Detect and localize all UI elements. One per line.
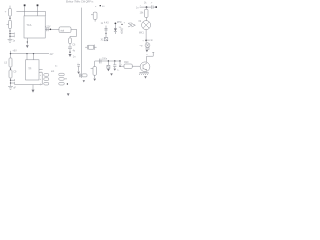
capacitor C10 + box xyxy=(79,74,81,78)
wire xyxy=(9,16,11,20)
crystal X2 xyxy=(107,61,109,65)
node xyxy=(114,60,115,61)
wire (top bus) xyxy=(16,11,45,13)
inductor L1 (box) xyxy=(59,27,71,33)
wire (bottom return) xyxy=(14,73,42,85)
svg-text:uF: uF xyxy=(13,88,16,90)
svg-text:1n: 1n xyxy=(150,40,153,42)
ground arrow xyxy=(110,73,113,75)
node xyxy=(145,40,147,42)
wire xyxy=(10,67,12,70)
capacitor C5 xyxy=(69,38,72,43)
svg-text:+9V: +9V xyxy=(12,50,17,53)
svg-text:(+: (+ xyxy=(117,69,120,71)
svg-text:+: + xyxy=(40,74,42,77)
op-amp U1 (IC box) xyxy=(24,16,45,38)
capacitor C11 xyxy=(151,5,153,8)
node xyxy=(119,60,120,61)
wire (IC pin down) xyxy=(26,38,28,45)
wire (base) xyxy=(132,65,140,67)
resistor R2 xyxy=(9,70,12,78)
lamp LA1 xyxy=(145,43,150,48)
svg-text:100n: 100n xyxy=(102,59,108,61)
pin taps right xyxy=(39,69,43,71)
ground arrow xyxy=(67,93,70,96)
capacitor C1 (polarized, top-left) xyxy=(9,6,11,9)
wire xyxy=(69,49,71,54)
svg-text:~w: ~w xyxy=(139,45,142,47)
terminal pin 2 xyxy=(37,6,39,16)
diode D1 xyxy=(114,24,116,28)
terminal pin 1 xyxy=(24,6,26,16)
crystal X1 symbol xyxy=(85,46,87,48)
node xyxy=(9,18,10,19)
ground arrow small xyxy=(83,80,85,82)
wire xyxy=(145,30,147,43)
resistor R4 xyxy=(93,12,97,19)
wire (bus to driver) xyxy=(120,61,124,66)
resistor R8 xyxy=(93,67,96,76)
resistor R1 xyxy=(9,20,12,28)
svg-text:LS: LS xyxy=(4,62,7,65)
transformer T1 (box) xyxy=(26,60,39,80)
svg-text:Elektor 7MHz CW QRP tx: Elektor 7MHz CW QRP tx xyxy=(66,1,94,4)
node xyxy=(9,30,10,31)
svg-text:10k: 10k xyxy=(140,12,145,14)
wire xyxy=(45,12,47,16)
hatch xyxy=(145,47,150,49)
svg-text:C6: C6 xyxy=(72,45,76,47)
svg-text:C9: C9 xyxy=(13,72,17,74)
svg-text:TR: TR xyxy=(28,68,31,71)
ground arrow xyxy=(77,72,80,74)
resistor R10 xyxy=(124,64,132,68)
ground xyxy=(8,85,13,87)
ground xyxy=(93,79,96,81)
capacitor chain mid xyxy=(105,26,107,34)
svg-text:n: n xyxy=(146,54,148,56)
resistor R12 xyxy=(145,9,148,17)
wire xyxy=(9,28,11,39)
svg-text:+: + xyxy=(124,22,126,24)
capacitor tap xyxy=(11,82,15,84)
wire xyxy=(10,78,12,86)
svg-text:R10: R10 xyxy=(124,62,129,64)
svg-text:ant: ant xyxy=(51,70,55,73)
capacitor C4 (series) xyxy=(46,27,48,31)
svg-text:4n7: 4n7 xyxy=(50,54,55,56)
ground xyxy=(8,38,13,40)
svg-text:n: n xyxy=(95,6,97,8)
ground xyxy=(32,90,35,93)
svg-text:TCA: TCA xyxy=(26,24,31,27)
svg-text:+: + xyxy=(40,78,42,81)
ground xyxy=(26,45,29,48)
node xyxy=(50,29,52,31)
wire (long vertical rail) xyxy=(80,8,82,78)
svg-text:1n: 1n xyxy=(136,7,139,9)
svg-text:MHz: MHz xyxy=(117,22,123,24)
svg-text:+: + xyxy=(142,40,144,42)
svg-text:4x: 4x xyxy=(55,65,58,67)
ground arrow xyxy=(144,76,147,78)
capacitor C6 xyxy=(68,46,72,48)
svg-text:40: 40 xyxy=(102,6,105,8)
capacitor C7 (series) xyxy=(99,59,101,64)
svg-text:xtal: xtal xyxy=(60,29,64,32)
svg-text:X2: X2 xyxy=(138,21,142,23)
svg-text:+: + xyxy=(5,10,7,14)
capacitor C2 tap xyxy=(10,33,14,35)
wire xyxy=(11,53,50,55)
wire xyxy=(70,29,77,38)
ground xyxy=(69,54,72,57)
svg-text:1k: 1k xyxy=(144,3,147,5)
transistor Q1 xyxy=(140,62,150,72)
capacitor tap xyxy=(11,79,15,81)
wire xyxy=(145,17,147,20)
wire xyxy=(69,43,71,46)
svg-text:X1: X1 xyxy=(101,40,105,42)
node xyxy=(108,60,109,61)
wire (pins into transformer box) xyxy=(26,54,28,60)
svg-text:+: + xyxy=(77,63,79,65)
capacitor C3 tap xyxy=(10,35,14,37)
mixer U2 xyxy=(142,21,151,30)
bus wire xyxy=(95,60,120,62)
svg-text:.+: .+ xyxy=(150,3,153,5)
wire xyxy=(32,85,34,90)
svg-text:MX1: MX1 xyxy=(139,33,144,35)
heatsink hatch xyxy=(139,72,148,74)
svg-text:+: + xyxy=(121,64,123,66)
svg-text:1n: 1n xyxy=(13,41,16,43)
node xyxy=(146,6,148,8)
wire (IC output) xyxy=(45,28,59,30)
svg-text:4.43: 4.43 xyxy=(104,22,109,24)
wire xyxy=(140,6,151,8)
svg-text:4x: 4x xyxy=(73,51,76,53)
loudspeaker LS (box) xyxy=(9,58,12,67)
svg-text:+: + xyxy=(140,5,142,7)
svg-text:1n: 1n xyxy=(73,57,76,59)
capacitor C8 xyxy=(114,61,116,65)
ground arrow xyxy=(146,50,148,52)
wire (collector out) xyxy=(147,52,154,62)
svg-text:50: 50 xyxy=(119,27,122,29)
